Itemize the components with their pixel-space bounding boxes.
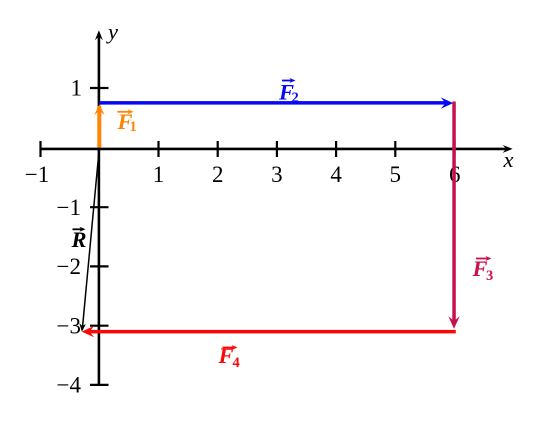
- y-axis arrowhead: [95, 30, 103, 40]
- label F2 with vector arrow (blue): [278, 78, 299, 106]
- vector F4 (red, from (6,-3) left to (0,-3)): [82, 326, 456, 337]
- svg-text:−2: −2: [57, 254, 81, 279]
- x ticks: [41, 141, 455, 157]
- svg-text:−1: −1: [25, 162, 49, 187]
- svg-text:−3: −3: [57, 313, 81, 338]
- y ticks: [90, 88, 109, 385]
- svg-text:3: 3: [486, 268, 493, 284]
- label F4 with vector arrow (red): [218, 343, 240, 371]
- y tick labels: [57, 76, 82, 398]
- svg-text:1: 1: [153, 162, 165, 187]
- vector F1 (orange, from origin up to y≈0.75): [94, 104, 104, 147]
- vector F2 (blue, from (0,0.75) to (6,0.75)): [99, 97, 453, 108]
- x-axis arrowhead: [503, 145, 513, 153]
- label F3 with vector arrow (crimson): [472, 256, 494, 284]
- label F1 with vector arrow (orange): [117, 109, 137, 135]
- svg-text:−1: −1: [57, 195, 81, 220]
- x tick labels: [25, 162, 461, 187]
- x-axis: [41, 148, 508, 151]
- svg-text:R: R: [71, 227, 87, 252]
- svg-text:x: x: [503, 147, 514, 172]
- svg-text:2: 2: [212, 162, 224, 187]
- svg-text:1: 1: [130, 119, 137, 135]
- svg-text:5: 5: [390, 162, 402, 187]
- y-axis: [98, 36, 101, 386]
- svg-text:3: 3: [271, 162, 283, 187]
- svg-text:1: 1: [71, 76, 83, 101]
- label R with vector arrow (black): [71, 227, 87, 252]
- vector R (black resultant, thin, from origin to (-0.3,-3)): [79, 149, 99, 332]
- svg-text:−4: −4: [57, 373, 82, 398]
- svg-text:y: y: [106, 19, 118, 44]
- svg-text:2: 2: [292, 90, 299, 106]
- vector F3 (crimson, from (6,0.75) down to (6,-3)): [448, 102, 459, 329]
- svg-text:4: 4: [330, 162, 342, 187]
- svg-text:4: 4: [233, 355, 240, 371]
